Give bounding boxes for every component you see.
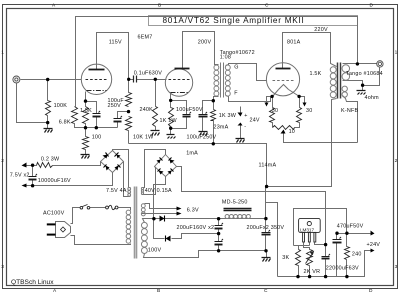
wire filament left lead	[273, 90, 279, 97]
svg-text:10K 1W: 10K 1W	[133, 135, 154, 141]
wire 24V marker top segment	[240, 107, 242, 113]
svg-text:40V 0.15A: 40V 0.15A	[145, 188, 172, 194]
title box	[149, 16, 358, 26]
svg-text:200uFx2 350V: 200uFx2 350V	[247, 225, 285, 231]
junction dot (213.3,143.8)	[212, 142, 215, 145]
wire fuse to primary	[119, 208, 131, 211]
resistor 240K	[153, 107, 158, 127]
wire 240K top	[155, 80, 157, 107]
junction dot (128.5,111.6)	[127, 110, 130, 113]
svg-text:100: 100	[92, 135, 102, 141]
svg-text:240K: 240K	[140, 107, 154, 113]
wire bridge1 right AC	[124, 162, 131, 197]
pot 2K VR wiper arrow	[306, 252, 314, 264]
wire 24V marker bottom segment	[240, 126, 242, 139]
svg-text:2: 2	[395, 158, 398, 164]
junction dot (32.6,165.2)	[31, 164, 34, 167]
junction dot (218.6,233.6)	[217, 232, 220, 235]
resistor 30 left	[270, 108, 275, 123]
svg-text:22000uF63V: 22000uF63V	[326, 266, 359, 272]
ground capB	[199, 132, 208, 136]
diode D2 doubler	[166, 236, 171, 242]
arrow 24V plus	[238, 113, 243, 117]
capacitor 470uF50V	[333, 237, 342, 243]
capacitor 10000uF16V	[29, 174, 38, 180]
svg-text:1: 1	[395, 50, 398, 56]
wire pot bottom	[309, 266, 311, 277]
wire LM317 out link	[294, 245, 310, 247]
ground 240K	[151, 131, 160, 136]
wire coupling cap left	[129, 79, 134, 81]
svg-text:3: 3	[395, 264, 398, 270]
capacitor 22000uF63V	[322, 254, 331, 259]
svg-text:6.3V: 6.3V	[187, 207, 199, 213]
wire interstage G to 801A grid	[226, 64, 267, 81]
svg-text:3: 3	[1, 264, 4, 270]
output transformer Tango#10684	[330, 65, 349, 98]
wire LM317 out bus	[294, 209, 347, 246]
svg-text:D: D	[369, 288, 373, 293]
wire filament right arrow stub	[300, 97, 305, 104]
svg-text:LM317: LM317	[300, 227, 314, 232]
wire 1K3W bottom to rail	[213, 121, 215, 144]
wire bridge2 bottom DC	[154, 177, 166, 219]
choke MD-5-250 coil	[225, 215, 250, 219]
svg-text:K-NFB: K-NFB	[341, 108, 358, 114]
power transformer 7.5V 4A winding	[128, 187, 131, 196]
wire switch to fuse	[90, 207, 106, 209]
arrow filament right	[303, 103, 307, 107]
wire V2 cathode to bypass	[171, 101, 187, 115]
svg-text:-: -	[244, 123, 246, 129]
svg-text:200uF160V x2: 200uF160V x2	[177, 225, 215, 231]
svg-text:D: D	[370, 3, 374, 9]
junction dot (266,250.8)	[264, 249, 267, 252]
junction dot (85.5,127.7)	[84, 126, 87, 129]
wire 10000uF bottom	[32, 180, 34, 186]
wire bridge2 left AC	[142, 167, 156, 195]
junction dot (337,233.2)	[335, 232, 338, 235]
power transformer primary winding	[126, 210, 130, 243]
wire 30R to hum pot	[295, 123, 300, 128]
resistor 10K 1W lower	[126, 117, 132, 131]
wire 100uF250V bottom	[117, 122, 119, 128]
resistor 0.2 3W	[37, 163, 53, 168]
svg-text:470uF50V: 470uF50V	[337, 224, 364, 230]
svg-text:24V: 24V	[250, 118, 260, 124]
wire +24V arrow line	[347, 233, 371, 235]
wire V1 plate to RC node	[97, 33, 129, 93]
junction dot (357.4,63.9)	[356, 62, 359, 65]
wire 10K to B+ rail	[128, 131, 130, 144]
svg-text:1:08: 1:08	[220, 55, 231, 61]
junction dot (272.1,96.4)	[270, 95, 273, 98]
junction dot (128.7,79.3)	[127, 78, 130, 81]
components group	[37, 93, 350, 266]
wire V1 cathode	[85, 92, 87, 107]
interstage transformer Tango#10672	[214, 63, 230, 98]
svg-text:801A/VT62 Single Amplifier MKI: 801A/VT62 Single Amplifier MKII	[163, 16, 305, 25]
arrow +24V upper	[371, 231, 375, 236]
resistor 1K 3W	[211, 110, 216, 121]
wire doubler diode1 line	[154, 218, 219, 220]
wire 30 ohm left top	[272, 97, 274, 108]
svg-text:200V: 200V	[198, 40, 212, 46]
svg-text:+24V: +24V	[367, 242, 381, 248]
wire 240 ohm leads	[346, 234, 348, 277]
svg-text:C: C	[265, 3, 269, 9]
svg-text:G: G	[234, 65, 238, 71]
wire 3K bottom	[298, 266, 300, 277]
ground 1K cathode	[167, 135, 176, 139]
capacitor 200uF160V upper	[215, 223, 224, 229]
svg-text:6.8K: 6.8K	[59, 120, 71, 126]
wire 30 ohm right top	[299, 97, 301, 108]
svg-text:F: F	[234, 90, 238, 96]
wire capB bottom to ground	[202, 118, 204, 132]
wire mains plug top	[71, 208, 81, 224]
wire LM317 adj to pot	[304, 243, 310, 250]
svg-text:10: 10	[289, 129, 295, 135]
wire 350V cap column	[265, 187, 267, 251]
capacitor 100uF50V cathode V2	[183, 112, 192, 117]
ground input	[44, 129, 53, 133]
choke MD-5-250 core	[224, 209, 252, 211]
hum pot wiper arrow	[281, 130, 286, 143]
wire decouple node to 100uF250V	[118, 112, 129, 119]
svg-text:100uF50V: 100uF50V	[176, 107, 203, 113]
wire filament left arrow stub	[267, 97, 273, 104]
AC plug	[56, 222, 71, 238]
junction dot (266.6,186.5)	[265, 185, 268, 188]
ground 24V marker	[236, 139, 245, 143]
svg-text:114mA: 114mA	[259, 163, 277, 169]
K-NFB rail	[284, 134, 358, 143]
wire interstage primary bottom	[214, 97, 219, 110]
capacitor 200uFx2 350V	[262, 230, 271, 235]
junction dot (155.3,79.3)	[154, 78, 157, 81]
svg-text:1.5K: 1.5K	[80, 108, 92, 114]
wire LM317 in leg	[315, 243, 326, 245]
junction dot (325.6,276.6)	[324, 275, 327, 278]
junction dot (153.9,218.7)	[152, 217, 155, 220]
wire interstage F to filament	[226, 96, 271, 102]
wire input shield down	[17, 84, 48, 123]
svg-text:+: +	[244, 113, 247, 119]
arrow 6.3V upper	[177, 207, 182, 211]
wire bottom 7.5V bus	[26, 173, 113, 186]
power transformer 40V winding	[141, 188, 143, 195]
wire 1K bottom to ground	[170, 127, 172, 135]
junction dot (218.6,218.7)	[217, 217, 220, 220]
wire jack return	[363, 68, 380, 86]
wire capB top	[203, 101, 214, 115]
svg-text:250V: 250V	[108, 103, 122, 109]
wire filament right lead	[289, 90, 300, 97]
svg-text:B: B	[158, 3, 161, 9]
wire 30L to hum pot	[272, 123, 274, 128]
resistor 1.5K cathode	[83, 107, 89, 124]
wire 0.2ohm node	[26, 165, 37, 167]
wire cathode ground bus y128	[75, 124, 118, 128]
diode D1 doubler	[160, 216, 165, 222]
wire LM317 out leg down	[309, 243, 311, 246]
wire bias line to LM317 input	[177, 167, 326, 245]
ground PSU	[262, 258, 271, 262]
bottom 24V return rail	[278, 251, 371, 277]
junction dot (325.6,244.6)	[324, 243, 327, 246]
wire 240K bottom	[155, 127, 157, 131]
wire 470uF leads	[337, 234, 347, 277]
wire 1.5K bottom	[85, 124, 87, 128]
svg-text:AC100V: AC100V	[43, 211, 65, 217]
svg-text:1mA: 1mA	[186, 151, 198, 157]
svg-text:220V: 220V	[314, 27, 328, 33]
fuse	[106, 205, 118, 209]
wire 350V cap ground stub	[266, 251, 268, 258]
junction dot (265.9,218.6)	[264, 217, 267, 220]
svg-text:0.1uF630V: 0.1uF630V	[134, 71, 163, 77]
wire bypass cap bottom	[96, 116, 98, 128]
wire 100V winding top	[143, 219, 153, 223]
arrow filament left	[265, 103, 269, 107]
wire B+ to ground-rail link	[266, 203, 278, 277]
svg-text:100V: 100V	[148, 248, 162, 254]
resistor 100K	[46, 101, 51, 116]
svg-text:Tango #10684: Tango #10684	[346, 71, 383, 77]
wire 6.3V lower	[142, 213, 178, 215]
svg-text:240: 240	[352, 251, 362, 257]
wire OPT secondary top to jack	[343, 63, 377, 65]
junction dot (362.6,85.2)	[361, 84, 364, 87]
wire coupling cap to V2 grid	[137, 79, 167, 81]
wire 3K top	[298, 246, 300, 250]
svg-text:2: 2	[1, 158, 4, 164]
power transformer core	[135, 187, 137, 259]
resistor 30 right	[297, 108, 302, 123]
ground OPT tap	[357, 91, 366, 95]
ground 100 ohm	[81, 155, 90, 159]
wire V2 plate to interstage	[183, 32, 219, 70]
diode bridge 7.5V	[101, 151, 124, 173]
junction dot (298,276.6)	[296, 275, 299, 278]
junction dot (96.3,127.7)	[95, 126, 98, 129]
resistor 3K	[296, 250, 301, 266]
tube V3 801A	[266, 63, 299, 96]
wire OPT primary bottom B+ drop	[267, 99, 337, 187]
wire 6.3V upper	[145, 204, 178, 209]
svg-text:10000uF16V: 10000uF16V	[38, 178, 71, 184]
tube V2 6EM7 triode 2	[165, 69, 192, 97]
wire 160V cap string	[218, 219, 220, 251]
resistor 6.8K	[72, 107, 78, 124]
junction dot (346.9,233.2)	[345, 232, 348, 235]
svg-text:4ohm: 4ohm	[365, 95, 380, 101]
wire 100 ohm top	[85, 128, 87, 137]
diode bridge 40V	[155, 155, 177, 177]
svg-text:7.5V 4A: 7.5V 4A	[106, 188, 127, 194]
resistor 100	[83, 137, 89, 150]
potentiometer 2K VR	[307, 250, 313, 266]
capacitor 100uF250V at 1K3W	[199, 112, 208, 117]
output jack	[377, 61, 383, 67]
svg-text:MD-5-250: MD-5-250	[222, 199, 248, 205]
wire 100K top	[47, 80, 49, 101]
arrow 7.5V feed upper	[22, 163, 27, 168]
svg-text:1K 1W: 1K 1W	[160, 118, 178, 124]
tube V1 6EM7 triode 1	[81, 64, 111, 94]
resistor 240	[345, 247, 350, 260]
wire 100V winding bottom	[144, 251, 267, 258]
wire V2 cathode bypass bottom	[171, 118, 187, 129]
junction dot (32.6,185.7)	[31, 184, 34, 187]
wire choke line	[219, 218, 266, 220]
wire 801A plate to OPT	[283, 33, 337, 69]
junction dot (170.7,100.4)	[169, 99, 172, 102]
wire bridge2 top AC	[142, 150, 166, 188]
arrow 6.3V lower	[177, 212, 182, 216]
resistor plate load upper	[126, 93, 132, 107]
junction dot (299.1,96.4)	[297, 95, 300, 98]
wire V2 cathode	[171, 93, 172, 108]
svg-text:6EM7: 6EM7	[138, 35, 153, 41]
wire 22000uF leads	[325, 245, 327, 277]
junction dot (47.7,122.6)	[46, 121, 49, 124]
svg-text:30: 30	[306, 108, 312, 114]
arrow 24V minus	[238, 123, 243, 126]
wire mains plug bottom	[71, 236, 131, 245]
svg-text:1K 3W: 1K 3W	[219, 113, 237, 119]
svg-text:1: 1	[1, 50, 4, 56]
output transformer core	[338, 63, 341, 99]
junction dot (47.7,79.5)	[46, 78, 49, 81]
B+ rail	[129, 144, 267, 187]
junction dot (170.7,128.2)	[169, 127, 172, 130]
junction dot (346.9,276.6)	[345, 275, 348, 278]
voltage regulator LM317	[299, 218, 321, 242]
power transformer 100V winding	[141, 222, 147, 253]
junction dot (213.3,100.7)	[212, 99, 215, 102]
wire cathode node right to bypass cap	[86, 102, 97, 114]
svg-text:801A: 801A	[287, 40, 301, 46]
svg-text:2K VR: 2K VR	[304, 269, 321, 275]
power transformer 6.3V winding	[141, 204, 145, 216]
svg-text:C: C	[264, 288, 268, 293]
junction dot (309.6,276.6)	[308, 275, 311, 278]
wire input to grid V1	[21, 79, 82, 81]
capacitor cathode bypass V1 100uF250V	[93, 111, 101, 117]
capacitor 100uF250V decoupling	[114, 116, 123, 122]
wire bridge1 top AC	[113, 150, 131, 188]
svg-text:0.2 3W: 0.2 3W	[41, 157, 60, 163]
wire K-NFB winding to rail	[343, 96, 358, 143]
arrow 7.5V feed lower	[22, 184, 27, 188]
svg-text:7.5V x2: 7.5V x2	[10, 172, 30, 178]
power switch	[80, 205, 90, 210]
svg-text:115V: 115V	[109, 40, 122, 46]
svg-text:23mA: 23mA	[214, 124, 229, 130]
wire GNFB loop top	[76, 17, 358, 107]
arrow +24V lower	[371, 249, 375, 253]
junction dot (218.6,250.8)	[217, 249, 220, 252]
hum pot 10 ohm	[273, 126, 295, 130]
svg-text:30: 30	[272, 108, 278, 114]
svg-text:1.5K: 1.5K	[310, 71, 322, 77]
svg-text:QTBSch Linux: QTBSch Linux	[11, 279, 54, 286]
capacitor 200uF160V lower	[215, 239, 224, 245]
svg-text:100uF250V: 100uF250V	[187, 134, 217, 140]
svg-text:3K: 3K	[282, 255, 289, 261]
wire doubler diode2 line	[154, 219, 219, 239]
wire 100K bottom to ground	[47, 116, 49, 129]
capacitor 0.1uF630V coupling	[134, 76, 137, 83]
junction dot (85.5,101.1)	[84, 99, 87, 102]
svg-text:B: B	[157, 288, 160, 293]
wire 0.2ohm to bridge1	[53, 162, 101, 166]
wire 100 ohm bottom to ground	[85, 150, 87, 155]
input jack	[13, 76, 20, 83]
wire OPT tap to ground	[343, 81, 363, 91]
AC plug prongs	[47, 223, 56, 235]
resistor 1K	[169, 108, 174, 127]
wire 10000uF top	[32, 166, 34, 177]
svg-text:100K: 100K	[54, 103, 68, 109]
